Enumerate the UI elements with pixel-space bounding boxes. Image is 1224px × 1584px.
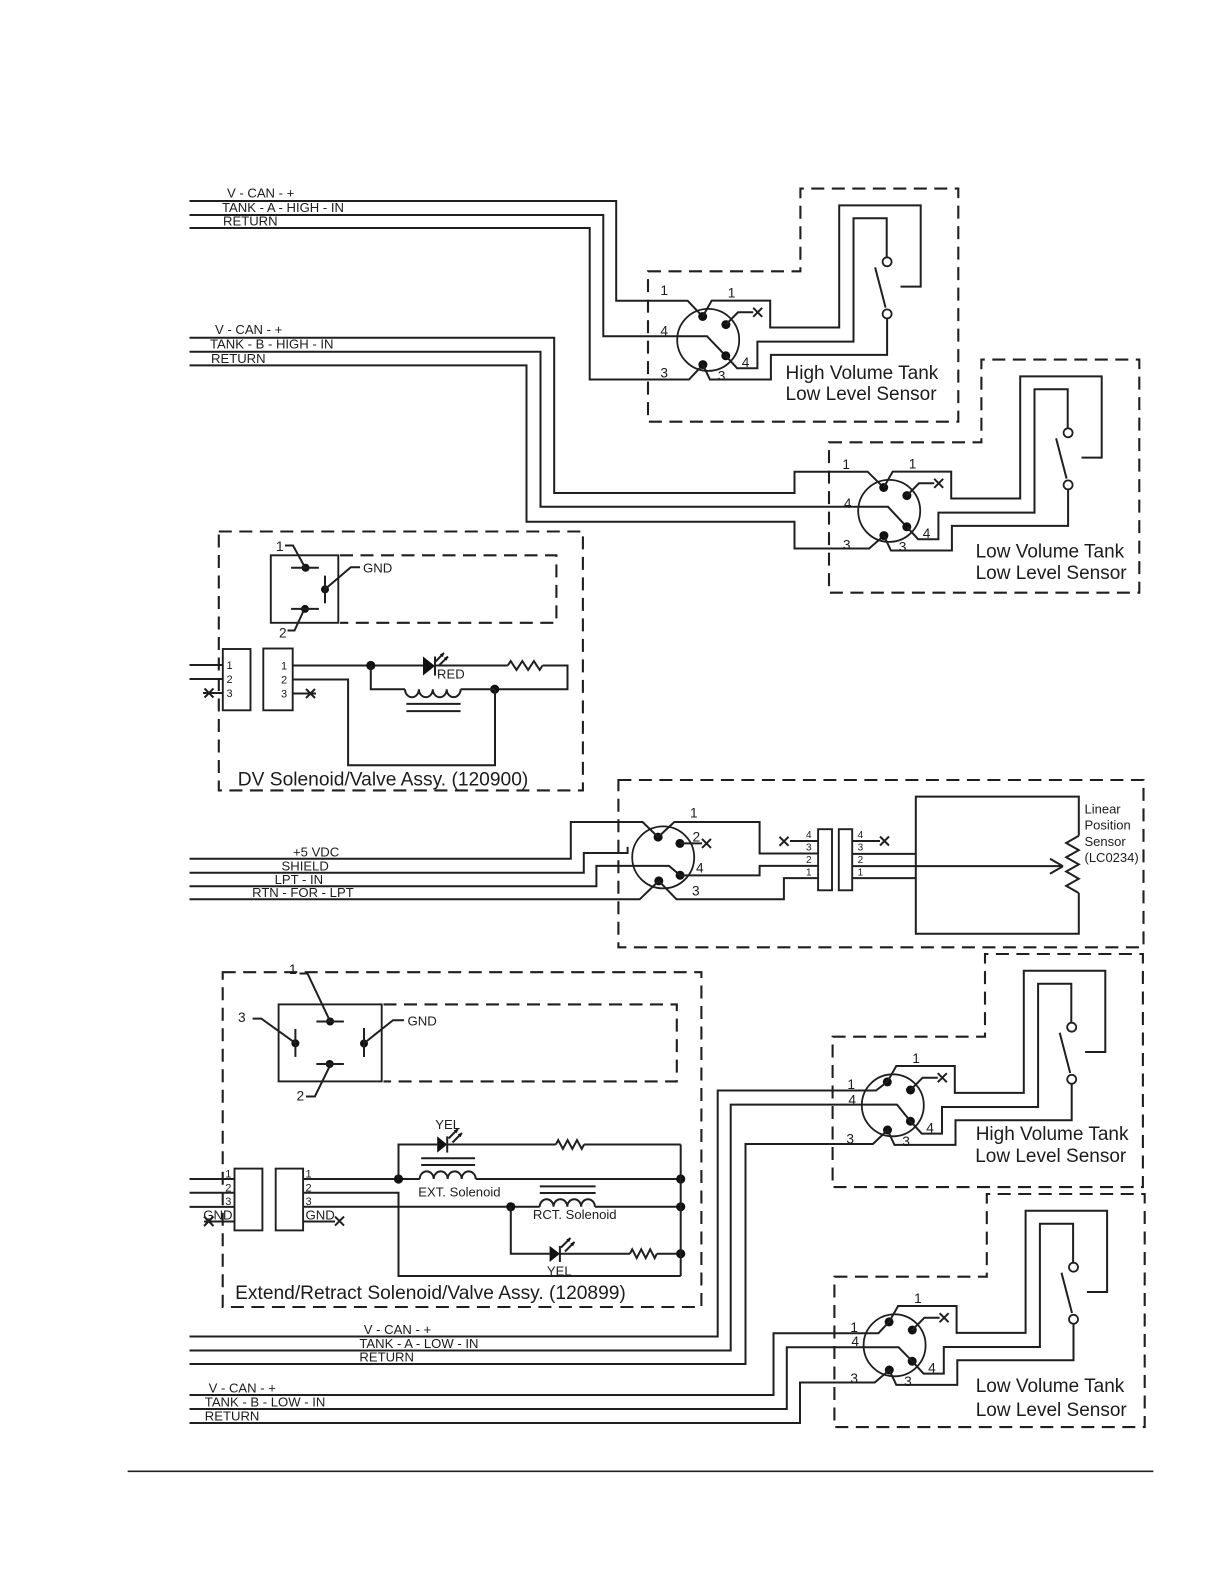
wire resistor to J2 — [495, 666, 568, 690]
P1 pin3 no-connect — [203, 692, 223, 694]
P1 GND no-connect — [204, 1221, 235, 1223]
svg-text:4: 4 — [844, 496, 852, 511]
row4 left no-connect — [790, 840, 818, 842]
svg-text:1: 1 — [842, 457, 850, 472]
EXT valve pin 3 — [291, 1039, 299, 1047]
wire V-CAN-+ to sensor3 pin1 — [190, 1082, 888, 1337]
row3 right wire — [852, 853, 916, 855]
svg-text:3: 3 — [858, 843, 864, 854]
svg-text:TANK - B - HIGH - IN: TANK - B - HIGH - IN — [210, 337, 333, 352]
wire RETURN to sensor3 pin3 — [190, 1130, 888, 1364]
resistor R1 — [508, 661, 543, 670]
svg-text:+5 VDC: +5 VDC — [293, 845, 339, 860]
wire RETURN to sensor2 pin3 — [190, 365, 884, 548]
svg-text:2: 2 — [806, 855, 812, 866]
inline connector rect L — [818, 829, 832, 890]
row4 right no-connect — [852, 840, 880, 842]
wire TANK-A-LOW-IN to sensor3 pin4 — [190, 1105, 911, 1351]
EXT valve dashed extension — [384, 1004, 677, 1081]
svg-text:V - CAN - +: V - CAN - + — [364, 1322, 431, 1337]
DV valve pin GND — [321, 585, 329, 593]
wire LPT-IN through to pin4 — [190, 866, 681, 886]
svg-text:3: 3 — [850, 1371, 858, 1386]
EXT row1 wire — [303, 1178, 420, 1180]
junction dot J7 — [676, 1249, 685, 1258]
solenoid coil RCT — [540, 1199, 595, 1207]
wire LED to resistor — [435, 665, 508, 667]
svg-text:2: 2 — [279, 626, 287, 641]
svg-text:RED: RED — [437, 667, 465, 682]
wire SHIELD stub — [190, 847, 628, 873]
svg-text:4: 4 — [696, 861, 704, 876]
right bus vertical — [680, 1145, 682, 1277]
svg-text:Position: Position — [1085, 818, 1131, 833]
svg-text:V - CAN - +: V - CAN - + — [209, 1381, 276, 1396]
LPS dashed enclosure — [618, 780, 1143, 947]
DV valve dashed extension — [340, 555, 556, 623]
footer rule — [128, 1470, 1154, 1472]
svg-text:1: 1 — [289, 962, 297, 977]
svg-text:1: 1 — [227, 660, 233, 672]
wire TANK-A-HIGH-IN to sensor1 pin4 — [190, 215, 726, 356]
EXT top branch wire — [399, 1145, 438, 1180]
EXT valve pin 1 — [326, 1018, 334, 1026]
svg-text:3: 3 — [238, 1010, 246, 1025]
RCT coil core bars — [540, 1186, 596, 1193]
junction dot J4 — [676, 1174, 685, 1183]
wire RTN-FOR-LPT to bottom pin — [190, 881, 659, 899]
DV connector receptacle P2 — [263, 649, 292, 711]
wire V-CAN-+ to sensor2 pin1 — [190, 338, 884, 493]
DV dashed enclosure — [219, 532, 583, 791]
DV connector plug P1 — [223, 649, 251, 710]
svg-text:3: 3 — [843, 537, 851, 552]
pin2 no-connect stub — [680, 842, 702, 844]
LPS body rectangle with potentiometer edge — [916, 797, 1079, 934]
return loop pin2 — [293, 680, 495, 766]
connector J-S1 — [677, 205, 921, 383]
svg-text:DV Solenoid/Valve Assy. (12090: DV Solenoid/Valve Assy. (120900) — [238, 770, 528, 791]
svg-text:2: 2 — [297, 1089, 305, 1104]
junction dot J3 — [394, 1174, 403, 1183]
P2 pin3 no-connect — [293, 693, 316, 695]
svg-text:2: 2 — [858, 855, 864, 866]
svg-text:Low Volume Tank: Low Volume Tank — [976, 542, 1125, 563]
wire V-CAN-+ to sensor1 pin1 — [190, 201, 703, 317]
svg-text:3: 3 — [660, 366, 668, 381]
svg-text:1: 1 — [281, 661, 287, 673]
row2 return loop — [303, 1193, 681, 1276]
connector J-S4 — [864, 1211, 1108, 1389]
coil core bars — [406, 704, 460, 711]
svg-text:High Volume Tank: High Volume Tank — [976, 1124, 1129, 1145]
svg-text:Low Volume Tank: Low Volume Tank — [976, 1376, 1125, 1397]
solenoid coil L1 — [371, 666, 405, 690]
svg-text:RTN - FOR - LPT: RTN - FOR - LPT — [252, 885, 354, 900]
sensor4 dashed enclosure — [834, 1194, 1144, 1427]
LED D1 RED — [423, 657, 435, 676]
LED D3 YEL — [550, 1246, 560, 1262]
svg-text:3: 3 — [281, 689, 287, 701]
EXT valve pin 2 — [326, 1060, 334, 1068]
svg-text:Extend/Retract Solenoid/Valve: Extend/Retract Solenoid/Valve Assy. (120… — [235, 1283, 626, 1304]
wire pin1 out to inline conn row3 — [658, 822, 818, 854]
junction dot J2 — [490, 685, 499, 694]
svg-text:Sensor: Sensor — [1085, 834, 1127, 849]
svg-text:TANK - B - LOW - IN: TANK - B - LOW - IN — [205, 1395, 326, 1410]
wire V-CAN-+ to sensor4 pin1 — [190, 1322, 890, 1395]
solenoid coil EXT — [420, 1171, 476, 1179]
DV valve pin 1 — [302, 564, 310, 572]
EXT connector plug P1 — [235, 1169, 263, 1231]
svg-text:GND: GND — [408, 1014, 437, 1029]
junction dot J1 — [366, 661, 375, 670]
svg-text:Low Level Sensor: Low Level Sensor — [786, 384, 938, 405]
EXT coil core bars — [421, 1158, 475, 1165]
sensor1 dashed enclosure — [648, 189, 958, 422]
EXT connector receptacle P2 — [276, 1169, 303, 1231]
row1 right wire — [852, 877, 916, 879]
svg-text:4: 4 — [858, 830, 864, 841]
svg-text:1: 1 — [276, 539, 284, 554]
wire TANK-B-LOW-IN to sensor4 pin4 — [190, 1347, 913, 1409]
EXT valve pin GND — [360, 1040, 368, 1048]
svg-text:RCT. Solenoid: RCT. Solenoid — [533, 1207, 617, 1222]
resistor R2 — [556, 1140, 584, 1149]
svg-text:2: 2 — [693, 830, 701, 845]
svg-text:2: 2 — [227, 674, 233, 686]
svg-text:3: 3 — [692, 884, 700, 899]
svg-text:2: 2 — [281, 675, 287, 687]
connector J-S3 — [862, 971, 1106, 1149]
svg-text:3: 3 — [806, 843, 812, 854]
EXT row3 wire — [303, 1206, 540, 1208]
resistor R3 — [630, 1249, 657, 1258]
svg-text:3: 3 — [227, 688, 233, 700]
wires into P1 — [190, 665, 223, 679]
svg-text:1: 1 — [806, 867, 812, 878]
connector J-LPS circle — [632, 826, 694, 888]
svg-text:V - CAN - +: V - CAN - + — [215, 322, 282, 337]
LED branch from J5 — [511, 1207, 550, 1254]
svg-text:Low Level Sensor: Low Level Sensor — [975, 1146, 1127, 1167]
svg-text:GND: GND — [363, 561, 392, 576]
svg-text:GND: GND — [306, 1208, 335, 1223]
svg-text:1: 1 — [660, 283, 668, 298]
svg-text:1: 1 — [858, 867, 864, 878]
DV valve connector body — [271, 555, 339, 623]
row2 wiper arrow — [852, 865, 1061, 867]
wire RETURN to sensor4 pin3 — [190, 1370, 890, 1423]
svg-text:1: 1 — [690, 806, 698, 821]
svg-text:(LC0234): (LC0234) — [1085, 850, 1139, 865]
wire pin3 out to inline conn row1 — [659, 878, 818, 899]
sensor3 dashed enclosure — [833, 954, 1143, 1187]
sensor2 dashed enclosure — [829, 360, 1139, 593]
svg-text:Linear: Linear — [1085, 801, 1122, 816]
svg-text:V - CAN - +: V - CAN - + — [227, 186, 294, 201]
svg-text:Low Level Sensor: Low Level Sensor — [976, 563, 1128, 584]
wire pin4 out to inline conn row2 — [680, 866, 818, 876]
svg-text:EXT. Solenoid: EXT. Solenoid — [418, 1184, 500, 1199]
potentiometer zigzag — [1066, 836, 1079, 893]
svg-text:RETURN: RETURN — [211, 351, 266, 366]
junction dot J6 — [676, 1202, 685, 1211]
wire TANK-B-HIGH-IN to sensor2 pin4 — [190, 352, 907, 527]
DV circuit wire pin1 — [293, 665, 423, 667]
EXT dashed enclosure — [223, 972, 702, 1307]
wires into P1 — [190, 1179, 235, 1207]
EXT valve connector body — [279, 1004, 382, 1081]
wire RETURN to sensor1 pin3 — [190, 228, 703, 380]
svg-text:Low Level Sensor: Low Level Sensor — [976, 1400, 1128, 1421]
svg-text:4: 4 — [660, 323, 668, 338]
connector J-S2 — [858, 376, 1101, 554]
DV valve pin 2 — [301, 605, 309, 613]
svg-text:RETURN: RETURN — [205, 1409, 260, 1424]
P2 GND no-connect — [303, 1221, 335, 1223]
wire +5VDC to top pin — [190, 822, 659, 859]
svg-text:RETURN: RETURN — [359, 1350, 414, 1365]
svg-text:4: 4 — [806, 830, 812, 841]
junction dot J5 — [506, 1202, 515, 1211]
svg-text:High Volume Tank: High Volume Tank — [786, 363, 939, 384]
inline connector rect R — [839, 829, 852, 890]
